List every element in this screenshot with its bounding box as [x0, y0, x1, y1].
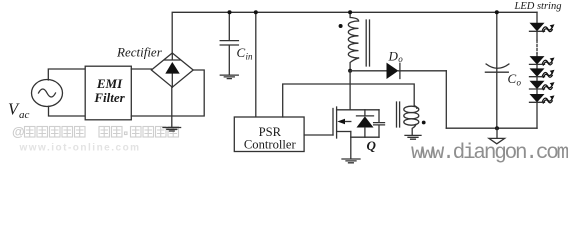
ground (output, open triangle): [489, 128, 505, 144]
watermark line 1 CJK-style: [12, 124, 25, 139]
diode Do: [350, 63, 446, 79]
node dot Cin/rail: [228, 10, 232, 14]
LED string D1: [530, 12, 545, 40]
svg-text:C: C: [237, 45, 246, 60]
wire sense line from aux winding: [283, 84, 415, 117]
node dot primary/rail: [348, 10, 352, 14]
wire dashed continuation: [536, 41, 538, 54]
wire gate line: [304, 134, 333, 136]
wire AC bottom lead: [49, 106, 86, 116]
svg-text:Q: Q: [367, 138, 377, 153]
LED string D3: [530, 68, 545, 80]
svg-text:EMI: EMI: [96, 76, 123, 91]
rectifier bridge diamond: [151, 53, 193, 87]
transformer primary winding: [348, 12, 358, 71]
wire drain vertical: [349, 71, 351, 110]
capacitor Co: [485, 12, 509, 128]
wire output bottom rail: [446, 127, 537, 129]
svg-text:Filter: Filter: [93, 90, 125, 105]
svg-text:www.iot-online.com: www.iot-online.com: [19, 143, 141, 154]
node dot VCC/rail: [254, 10, 258, 14]
svg-text:Controller: Controller: [244, 137, 297, 151]
auxiliary core: [397, 102, 400, 127]
wire EMI to bridge left vertex: [131, 68, 151, 70]
MOSFET Q: [333, 107, 379, 159]
wire AC top lead: [48, 69, 85, 80]
node dot output ground: [495, 126, 499, 130]
polarity dot primary: [339, 24, 343, 28]
svg-text:in: in: [246, 52, 254, 62]
label Rectifier: [116, 44, 163, 59]
node A drain/Do anode: [348, 69, 352, 73]
svg-text:D: D: [388, 49, 399, 64]
label LED string: [514, 1, 562, 12]
wire top rail: [172, 12, 537, 53]
LED string D2: [530, 54, 545, 69]
watermark www.diangon.com: [411, 142, 568, 165]
svg-text:o: o: [517, 78, 522, 88]
label Vac: [8, 100, 30, 122]
EMI filter box: [85, 66, 131, 120]
capacitor Cin: [220, 12, 238, 75]
body diode of Q: [357, 110, 374, 137]
watermark fake CJK blocks: [25, 127, 179, 138]
wire VCC drop to PSR: [255, 12, 257, 117]
node dot Co/rail: [495, 10, 499, 14]
svg-text:www.diangon.com: www.diangon.com: [411, 142, 568, 165]
label Co: [508, 71, 522, 88]
LED light arrows: [543, 24, 555, 103]
svg-text:ac: ac: [19, 109, 30, 121]
label Q: [367, 138, 377, 153]
ground (rectifier): [163, 87, 181, 131]
LED string D4: [530, 81, 545, 94]
svg-text:LED string: LED string: [514, 1, 562, 12]
svg-text:C: C: [508, 71, 517, 86]
PSR controller box U1: [234, 117, 304, 152]
polarity dot auxiliary: [422, 121, 426, 125]
parasitic capacitor of Q: [374, 110, 385, 137]
watermark line 2: [19, 143, 141, 154]
label EMI Filter: [93, 76, 125, 105]
wire EMI lower to bridge right vertex: [131, 70, 204, 116]
svg-text:o: o: [398, 54, 403, 64]
wire Do output down: [445, 71, 447, 128]
transformer auxiliary winding: [404, 106, 419, 135]
ground (Cin): [220, 75, 238, 79]
label Cin: [237, 45, 254, 62]
svg-text:@: @: [12, 124, 25, 139]
transformer core: [366, 20, 369, 66]
svg-text:Rectifier: Rectifier: [116, 44, 163, 59]
label PSR Controller: [244, 125, 297, 151]
wire snubber bottom: [351, 136, 379, 138]
LED string D5: [530, 94, 545, 128]
label Do: [388, 49, 404, 64]
AC source Vac: [32, 80, 63, 107]
ground (auxiliary): [405, 135, 421, 139]
ground (MOSFET source): [342, 159, 360, 163]
rectifier internal diode: [165, 53, 181, 87]
